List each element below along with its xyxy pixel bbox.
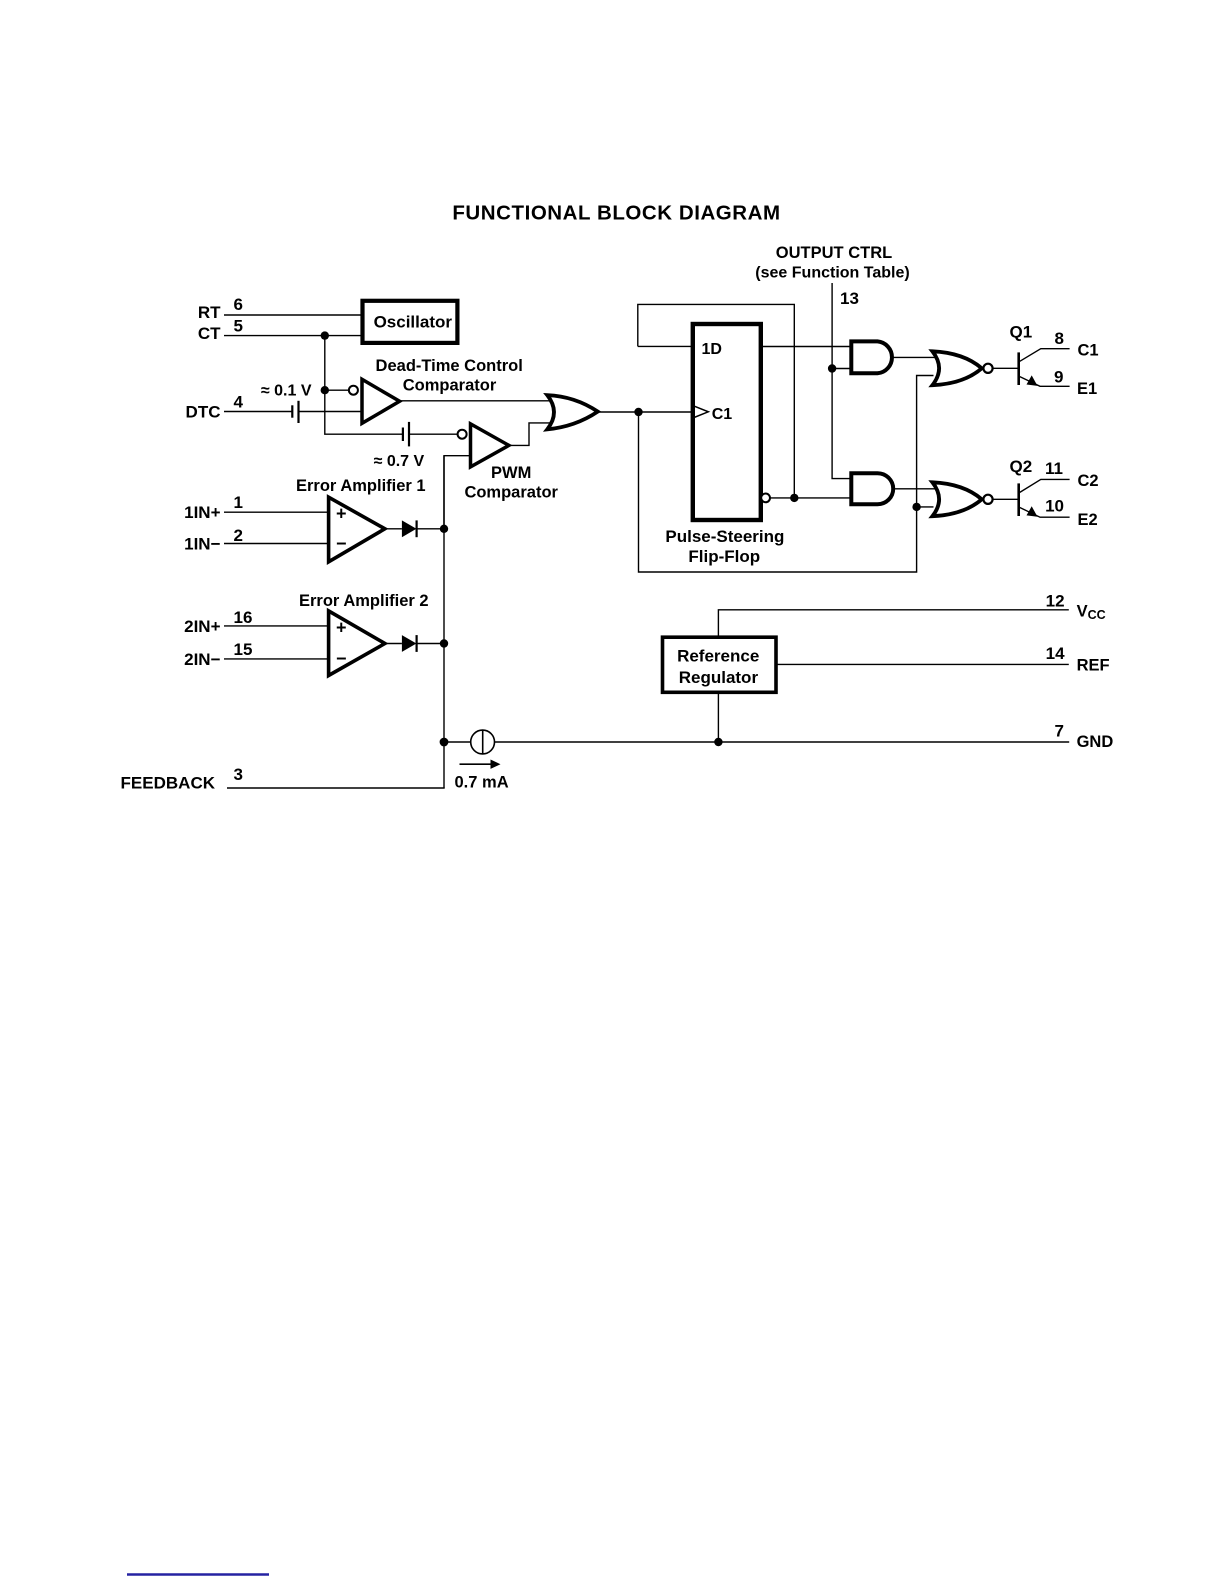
svg-text:Flip-Flop: Flip-Flop — [688, 547, 760, 566]
transistor Q1 base bar — [1017, 352, 1020, 385]
wire clock loop down and around to NOR gates — [639, 376, 934, 573]
svg-text:PWM: PWM — [491, 464, 531, 482]
svg-text:6: 6 — [234, 295, 243, 314]
wire battery to DTC comparator plus input — [299, 411, 364, 413]
svg-text:FUNCTIONAL BLOCK DIAGRAM: FUNCTIONAL BLOCK DIAGRAM — [452, 202, 780, 225]
wire D2 to bus — [417, 643, 444, 645]
wire bus to current source — [444, 741, 471, 743]
svg-text:1IN−: 1IN− — [184, 535, 220, 554]
svg-text:Q1: Q1 — [1010, 323, 1033, 342]
wire REF — [776, 663, 1069, 665]
svg-text:10: 10 — [1045, 496, 1064, 515]
gate G3 NOR top — [932, 351, 981, 385]
wire AND2 output to NOR2 — [893, 488, 935, 490]
wire 0.1V node to DTC comparator bubble — [325, 389, 349, 391]
current direction arrow — [460, 763, 493, 765]
svg-text:C1: C1 — [1078, 341, 1099, 359]
transistor Q2 emitter — [1020, 508, 1070, 518]
node regulator GND junction — [714, 738, 722, 746]
comparator U2 PWM triangle — [471, 424, 509, 467]
comparator U1 inverting input bubble — [349, 386, 358, 395]
svg-text:Error Amplifier 1: Error Amplifier 1 — [296, 477, 426, 495]
svg-text:16: 16 — [234, 608, 253, 627]
svg-text:11: 11 — [1045, 459, 1063, 478]
Qbar output bubble — [761, 494, 770, 503]
battery 0.1V offset long plate — [297, 401, 299, 423]
wire U5 output — [385, 643, 402, 645]
clock input triangle — [693, 406, 709, 418]
current source I1 circle — [471, 730, 495, 754]
svg-text:4: 4 — [234, 393, 244, 412]
wire VCC — [718, 610, 1068, 637]
wire 2IN+ — [224, 625, 329, 627]
svg-text:E1: E1 — [1077, 380, 1097, 398]
node OR output junction — [634, 408, 642, 416]
wire DTC to battery — [224, 411, 292, 413]
wire U1 output to OR gate — [400, 400, 552, 402]
wire CT to oscillator — [224, 335, 363, 337]
wire U2 output to OR gate — [509, 423, 552, 446]
wire AND1 output to NOR1 — [893, 356, 935, 358]
svg-text:Dead-Time Control: Dead-Time Control — [376, 357, 523, 375]
gate G4 AND bottom — [851, 473, 893, 504]
svg-text:CT: CT — [198, 324, 221, 343]
wire regulator to GND rail — [717, 692, 719, 742]
svg-text:Reference: Reference — [677, 647, 759, 666]
diode D1 — [402, 520, 417, 537]
node NOR2 lower input tap — [912, 503, 920, 511]
flip-flop U3 pulse-steering box — [693, 324, 761, 520]
title FUNCTIONAL BLOCK DIAGRAM — [452, 202, 780, 225]
svg-text:15: 15 — [234, 640, 253, 659]
wire tap to AND1 lower input — [832, 368, 851, 370]
transistor Q2 emitter arrow — [1027, 506, 1038, 517]
svg-text:Regulator: Regulator — [679, 668, 759, 687]
wire NOR1 to Q1 base — [993, 367, 1018, 369]
gate G5 NOR bottom — [932, 482, 981, 516]
svg-text:7: 7 — [1055, 722, 1064, 741]
wire 2IN- — [224, 658, 329, 660]
node 0.1V tap — [321, 386, 329, 394]
svg-text:12: 12 — [1046, 591, 1065, 610]
wire RT to oscillator — [224, 314, 363, 316]
op-amp U5 error amplifier 2 triangle — [329, 611, 385, 676]
svg-text:+: + — [336, 617, 347, 637]
svg-text:+: + — [336, 504, 347, 524]
svg-text:1IN+: 1IN+ — [184, 503, 220, 522]
transistor Q1 emitter arrow — [1027, 375, 1038, 386]
svg-text:OUTPUT CTRL: OUTPUT CTRL — [776, 244, 892, 262]
gate G2 AND top — [851, 341, 892, 373]
svg-text:2IN−: 2IN− — [184, 650, 220, 669]
wire GND rail — [495, 741, 1070, 743]
svg-text:Oscillator: Oscillator — [374, 313, 453, 332]
node Qbar loop junction — [790, 494, 798, 502]
svg-text:13: 13 — [840, 289, 859, 308]
svg-text:Q2: Q2 — [1010, 457, 1033, 476]
svg-text:Pulse-Steering: Pulse-Steering — [665, 527, 784, 546]
op-amp U4 error amplifier 1 triangle — [329, 497, 385, 562]
svg-text:Comparator: Comparator — [464, 483, 558, 501]
svg-text:9: 9 — [1054, 368, 1063, 387]
wire feedback bus vertical — [443, 456, 445, 788]
svg-text:C2: C2 — [1078, 472, 1099, 490]
svg-text:14: 14 — [1046, 644, 1065, 663]
svg-text:(see Function Table): (see Function Table) — [755, 265, 909, 282]
oscillator box — [363, 301, 458, 343]
svg-text:1: 1 — [234, 493, 243, 512]
svg-text:FEEDBACK: FEEDBACK — [121, 773, 216, 792]
battery 0.7V offset short plate — [402, 428, 404, 442]
wire NOR2 to Q2 base — [993, 498, 1018, 500]
node CT junction — [321, 331, 329, 339]
NOR2 output bubble — [983, 495, 992, 504]
wire tap to NOR2 lower input — [917, 506, 934, 508]
battery 0.7V offset long plate — [408, 422, 410, 447]
svg-text:E2: E2 — [1078, 511, 1098, 529]
transistor Q2 collector — [1020, 479, 1070, 492]
wire D1 to bus — [417, 528, 444, 530]
svg-text:RT: RT — [198, 303, 221, 322]
NOR1 output bubble — [983, 364, 992, 373]
svg-text:8: 8 — [1055, 329, 1064, 348]
svg-text:Error Amplifier 2: Error Amplifier 2 — [299, 592, 429, 610]
diode D2 — [402, 635, 417, 652]
svg-text:1D: 1D — [702, 341, 722, 358]
wire FEEDBACK — [227, 787, 445, 789]
gate G1 OR — [547, 395, 598, 429]
regulator U6 reference box — [663, 637, 777, 692]
wire battery to PWM comparator bubble — [409, 433, 458, 435]
svg-text:≈ 0.7 V: ≈ 0.7 V — [374, 453, 425, 470]
comparator U2 PWM inverting input bubble — [458, 430, 467, 439]
svg-text:2: 2 — [234, 526, 243, 545]
svg-text:−: − — [336, 534, 347, 554]
wire Q output to AND1 — [761, 346, 852, 348]
node EA1 output junction — [440, 525, 448, 533]
svg-text:5: 5 — [234, 317, 243, 336]
wire 1IN- — [224, 543, 329, 545]
wire D input — [638, 345, 693, 347]
wire Qbar output to AND2 — [770, 497, 851, 499]
svg-text:0.7 mA: 0.7 mA — [455, 774, 509, 792]
svg-text:−: − — [336, 649, 347, 669]
wire U4 output — [385, 528, 402, 530]
transistor Q1 emitter — [1020, 377, 1070, 387]
svg-text:3: 3 — [234, 765, 243, 784]
wire Qbar feedback loop over top — [638, 304, 795, 498]
svg-text:≈ 0.1 V: ≈ 0.1 V — [261, 382, 312, 399]
svg-text:2IN+: 2IN+ — [184, 617, 220, 636]
transistor Q2 base bar — [1017, 483, 1020, 516]
svg-text:REF: REF — [1077, 656, 1110, 674]
current source I1 bar — [482, 730, 484, 754]
node bus to current source — [440, 738, 449, 747]
svg-text:DTC: DTC — [186, 403, 221, 422]
wire feedback bus to PWM plus input — [444, 456, 471, 529]
wire OR output to flip-flop clock — [599, 411, 693, 413]
node EA2 output junction — [440, 639, 448, 647]
footer link underline — [127, 1573, 269, 1575]
wire CT vertical to comparator inputs — [325, 336, 403, 435]
comparator U1 dead-time control triangle — [362, 379, 400, 423]
battery 0.1V offset short plate — [291, 405, 293, 417]
svg-text:GND: GND — [1077, 733, 1114, 751]
svg-text:Comparator: Comparator — [403, 377, 497, 395]
node output ctrl to AND1 tap — [828, 364, 836, 372]
wire 1IN+ — [224, 511, 329, 513]
svg-text:C1: C1 — [712, 406, 733, 423]
transistor Q1 collector — [1020, 349, 1070, 362]
wire output ctrl to AND gates — [832, 283, 851, 479]
